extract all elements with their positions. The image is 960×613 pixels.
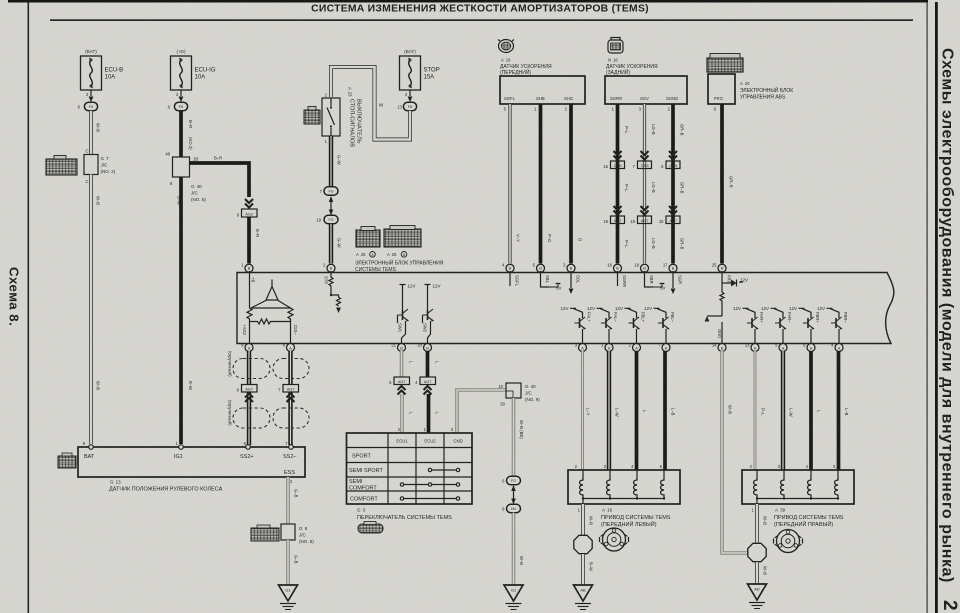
ECU pin 1 (FAL-) bottom: [601, 343, 613, 352]
coil FR3: [808, 470, 811, 499]
arrow up into AG7 (SS2+): [245, 394, 253, 403]
front acceleration sensor box A18: [500, 76, 585, 104]
wire G-W (switch down to connector 7): [331, 136, 342, 187]
wire B-R branch right from G40: [190, 156, 250, 198]
arrow into connector GN5 (SGV): [641, 151, 649, 160]
connector 13 FG (STOP): [397, 102, 416, 111]
label A16 front left TEMS actuator: [601, 508, 671, 529]
ECU internal FAL+ transistor: [560, 306, 591, 344]
ECU pin 14 (GND) bottom: [712, 343, 726, 352]
ECU internal FBR- transistor: [817, 306, 848, 344]
TEMS switch table G3: [347, 433, 473, 504]
label G3 TEMS switch: [357, 508, 452, 522]
connector 8 HU: [502, 504, 520, 512]
wire W-B (front left actuator pin 1 down): [578, 504, 594, 535]
arrow up into AG7 (SS2-): [287, 394, 295, 403]
connector 7 GN5: [633, 161, 652, 169]
wire L-Y (ECU pin 3 to front left TEMS actuator): [575, 351, 591, 470]
wire P-G (SHB to ECU pin 5): [534, 104, 552, 264]
twisted pair capsule SS2+ upper: [233, 359, 270, 379]
junction J/C G7 (NO.2): [84, 149, 116, 185]
ECU internal SGFL label: [510, 271, 520, 287]
front left TEMS actuator box A16: [568, 470, 680, 504]
twisted pair capsule SS2- lower: [273, 408, 309, 428]
wire fuse ECU-IG to connector: [176, 90, 183, 102]
connector 6 FG (ECU-IG): [168, 102, 188, 111]
junction J/C G40 (NO.9): [498, 383, 540, 407]
wire W-B (J/C G40 down to connector): [514, 398, 525, 476]
ECU pin 5 (FAR-) bottom: [775, 343, 787, 352]
twisted pair capsule SS2- upper: [273, 359, 309, 379]
front right TEMS actuator box A39: [742, 470, 854, 504]
connector 8 AG7 (SS2+): [237, 385, 257, 393]
connector icon for J/C G8: [251, 525, 279, 541]
ground AB (front left): [574, 585, 593, 610]
ECU pin 6 (FBR+) bottom: [803, 343, 815, 352]
ECU pin 18 (SBR): [634, 263, 648, 273]
grommet octagon front right: [748, 543, 766, 561]
fuse ECU-IG 10A: [171, 49, 216, 90]
steering wheel position sensor box G13: [78, 441, 305, 477]
ECU internal SW2 transistor: [423, 284, 441, 344]
actuator icon front left: [600, 528, 629, 551]
wire LG-B (SGV to ECU pin 18): [639, 104, 656, 264]
label N16 rear acceleration sensor: [606, 58, 658, 77]
wire P-L (SGRR to ECU pin 16): [612, 104, 629, 264]
connector icon TEMS switch: [358, 522, 383, 534]
wire GND W-B (ECU pin 14 to right octagon): [722, 351, 748, 553]
double arrow between connectors: [329, 196, 334, 215]
ECU pin 9 (SS2+) bottom: [241, 343, 253, 352]
coil FL4: [661, 470, 664, 499]
wire fuse STOP to connector: [405, 90, 412, 102]
connector 18 AG7 (SGV): [630, 216, 651, 224]
ground AD (front right): [748, 584, 767, 609]
arrow up into AG7 (SW1): [398, 386, 406, 395]
arrow into connector GN5 (SGRR): [614, 151, 622, 160]
junction J/C G40 (NO.5): [165, 152, 206, 203]
ECU internal FBL- transistor: [644, 306, 675, 344]
label A18 front acceleration sensor: [500, 58, 552, 77]
wire fuse ECU-B to connector: [86, 90, 93, 102]
label A25/A26 TEMS ECU: [355, 252, 444, 274]
bus bar front right actuator: [756, 497, 839, 504]
ECU internal SGR arrow: [671, 271, 683, 294]
ground G4 (TEMS switch): [504, 585, 523, 610]
TEMS ECU connector icon A25: [356, 227, 380, 248]
connector 6 GN5: [661, 161, 680, 169]
border frame: left vertical rule: [28, 3, 30, 613]
ECU pin 2 (FBL+) bottom: [629, 343, 641, 352]
ECU internal FAL- transistor: [587, 306, 618, 344]
wire L (ECU pin 2 to front left TEMS actuator): [631, 351, 647, 470]
rear acceleration sensor connector icon: [608, 38, 623, 54]
connector 4 AG7 (SW2): [415, 377, 435, 385]
ECU pin 1 (+B): [241, 263, 253, 273]
wire L-W (ECU pin 1 to front left TEMS actuator): [604, 351, 620, 470]
ECU internal SBL 5V: [541, 271, 562, 291]
ECU internal FBL+ transistor: [615, 306, 646, 344]
ECU pin 21 (SW1) bottom: [391, 343, 405, 352]
label G13 steering sensor: [109, 480, 223, 493]
front acceleration sensor connector icon: [498, 40, 514, 53]
twisted pair capsule SS2+ lower: [233, 408, 270, 428]
wire W (STOP fuse to stop lamp switch): [331, 67, 410, 140]
wire G-W (connector 19 down to ECU pin 2): [331, 224, 342, 264]
label A20 ABS ECU: [740, 81, 793, 101]
coil FR4: [835, 470, 838, 499]
fuse ECU-B 10A: [81, 49, 124, 90]
title underline: [50, 19, 913, 21]
wire GND (TEMS switch to J/C G40 NO.9): [451, 390, 506, 433]
coil FL2: [607, 470, 610, 499]
connector icon steering sensor: [58, 453, 76, 468]
ECU pin 4 (SGFL): [502, 263, 514, 273]
coil FL1: [580, 470, 583, 499]
double arrow between connectors (TEMS switch gnd): [511, 485, 516, 504]
ECU internal FBR+ transistor: [789, 306, 820, 344]
wire B-W (octagon to ground AB): [583, 554, 594, 585]
wire SW1 lower (to TEMS switch): [398, 394, 402, 433]
ABS ECU box A20 (FRO): [708, 74, 735, 112]
wire SW2 (ECU pin 20 to TEMS switch ECU2): [426, 351, 430, 377]
ECU internal SW1 transistor: [398, 284, 416, 344]
ECU internal SGRR label: [618, 271, 628, 287]
wire L (ECU pin 6 to front right TEMS actuator): [806, 351, 822, 470]
fuse STOP 15A: [400, 49, 440, 90]
ECU internal SBR 5V: [645, 271, 666, 291]
bus bar front left actuator: [582, 497, 665, 504]
label A39 front right TEMS actuator: [774, 508, 844, 529]
wire B-R (AG2 down to ECU pin 1): [249, 217, 260, 264]
TEMS ECU main box: [237, 273, 894, 344]
TEMS switch contacts SEMI COMFORT row: [400, 483, 459, 486]
wire O (SHG to ECU pin 3): [565, 104, 583, 264]
stop lamp switch A23: [322, 93, 340, 145]
coil FR1: [754, 470, 757, 499]
wire SW1 (ECU pin 21 to TEMS switch ECU1): [400, 351, 404, 377]
ECU pin 25 (FRO): [712, 263, 726, 273]
ECU internal STP resistor: [324, 271, 341, 313]
ECU internal SOL arrow: [569, 271, 581, 294]
wire L-W (ECU pin 5 to front right TEMS actuator): [778, 351, 794, 470]
border frame: top bar: [8, 0, 928, 3]
ECU internal FRO diode and 12V: [705, 271, 748, 322]
connector icon for stop lamp switch: [304, 107, 320, 125]
label A23 stop lamp switch (vertical): [348, 87, 362, 147]
connector 7 FG: [320, 187, 338, 195]
wire SW2 lower (to TEMS switch): [424, 394, 429, 433]
connector 7 AG7 (SS2-): [278, 385, 298, 393]
grommet octagon front left: [574, 535, 592, 553]
ground G1 (left): [279, 585, 298, 610]
wire W-B (J/C G7 down to steering sensor BAT): [91, 175, 101, 445]
wire B-W (G40 down to steering sensor IG1): [177, 177, 194, 444]
ECU internal FAR- transistor: [761, 306, 792, 344]
connector 16 GN5: [603, 161, 624, 169]
ECU pin 2 (STP): [323, 263, 335, 273]
wire P-L (ECU pin 13 to front right TEMS actuator): [750, 351, 766, 470]
junction J/C G8 (NO.8): [281, 524, 314, 544]
ECU pin 8 (SS2-) bottom: [283, 343, 295, 352]
wire W-B (connector to ground G4): [514, 513, 525, 585]
ECU pin 13 (FAR+) bottom: [745, 343, 759, 352]
coil FL3: [634, 470, 637, 499]
connector icon for J/C G7: [46, 156, 77, 176]
ECU internal FAR+ transistor: [733, 306, 764, 344]
arrow into connector AG7 (SGND): [669, 206, 677, 215]
connector 19 FG: [316, 215, 338, 223]
wire B-R (fuse ECU-IG down to J/C G40): [181, 111, 193, 157]
ECU pin 3 (SOL): [563, 263, 575, 273]
ECU internal +B lead and op-amp: [242, 271, 298, 344]
arrow into connector AG2: [245, 199, 253, 208]
TEMS switch contacts SEMI SPORT row: [428, 468, 459, 471]
wire W-B (octagon to ground AD): [757, 562, 768, 584]
connector 9 AG2: [237, 209, 257, 218]
coil FR2: [781, 470, 784, 499]
ECU pin 4 (FBR-) bottom: [831, 343, 843, 352]
arrow into connector GN5 (SGND): [669, 151, 677, 160]
connector 19 AG7 (SGRR): [603, 216, 624, 224]
connector 15 AG7 (SGND): [659, 216, 680, 224]
wire GR-R (FRO to ECU pin 25): [722, 104, 734, 264]
rear acceleration sensor box N16: [605, 76, 687, 104]
border frame: right outer rule: [935, 2, 938, 613]
wire V-Y (SGFL to ECU pin 4): [504, 104, 521, 264]
ECU internal GND lead: [717, 322, 722, 344]
wire W-B (fuse ECU-B down to J/C G7): [91, 111, 101, 155]
wire L-B (ECU pin 7 to front left TEMS actuator): [660, 351, 676, 470]
ECU pin 7 (FBL-) bottom: [658, 343, 670, 352]
wire SS2- (ECU pin 8 to steering sensor): [288, 351, 292, 445]
arrow into connector AG7 (SGV): [641, 206, 649, 215]
connector 6 FG (ECU-B): [78, 102, 98, 111]
connector 5 AG7 (SW1): [389, 377, 409, 385]
arrow into connector AG7 (SGRR): [614, 206, 622, 215]
wire W-B (front right actuator pin 1 down): [752, 504, 768, 543]
ECU pin 16 (SGRR): [607, 263, 621, 273]
border frame: right inner rule: [927, 2, 928, 613]
wire SS2+ (ECU pin 9 to steering sensor): [247, 351, 251, 445]
TEMS switch contacts COMFORT row: [400, 497, 459, 500]
wire ESS (steering sensor to J/C G8): [288, 477, 299, 524]
arrow up into AG7 (SW2): [424, 386, 432, 395]
ABS ECU connector icon: [707, 54, 743, 73]
TEMS ECU connector icon A26: [384, 226, 421, 248]
connector 6 FO: [502, 476, 520, 484]
wire L-B (ECU pin 4 to front right TEMS actuator): [833, 351, 849, 470]
ECU pin 5 (SBL): [533, 263, 545, 273]
wire ESS (J/C G8 to ground G1): [288, 540, 299, 585]
ECU pin 17 (SGR): [663, 263, 677, 273]
actuator icon front right: [774, 530, 803, 553]
ECU pin 3 (FAL+) bottom: [575, 343, 587, 352]
ECU pin 20 (SW2) bottom: [417, 343, 431, 352]
wire GR-B (SGND to ECU pin 17): [668, 104, 685, 264]
